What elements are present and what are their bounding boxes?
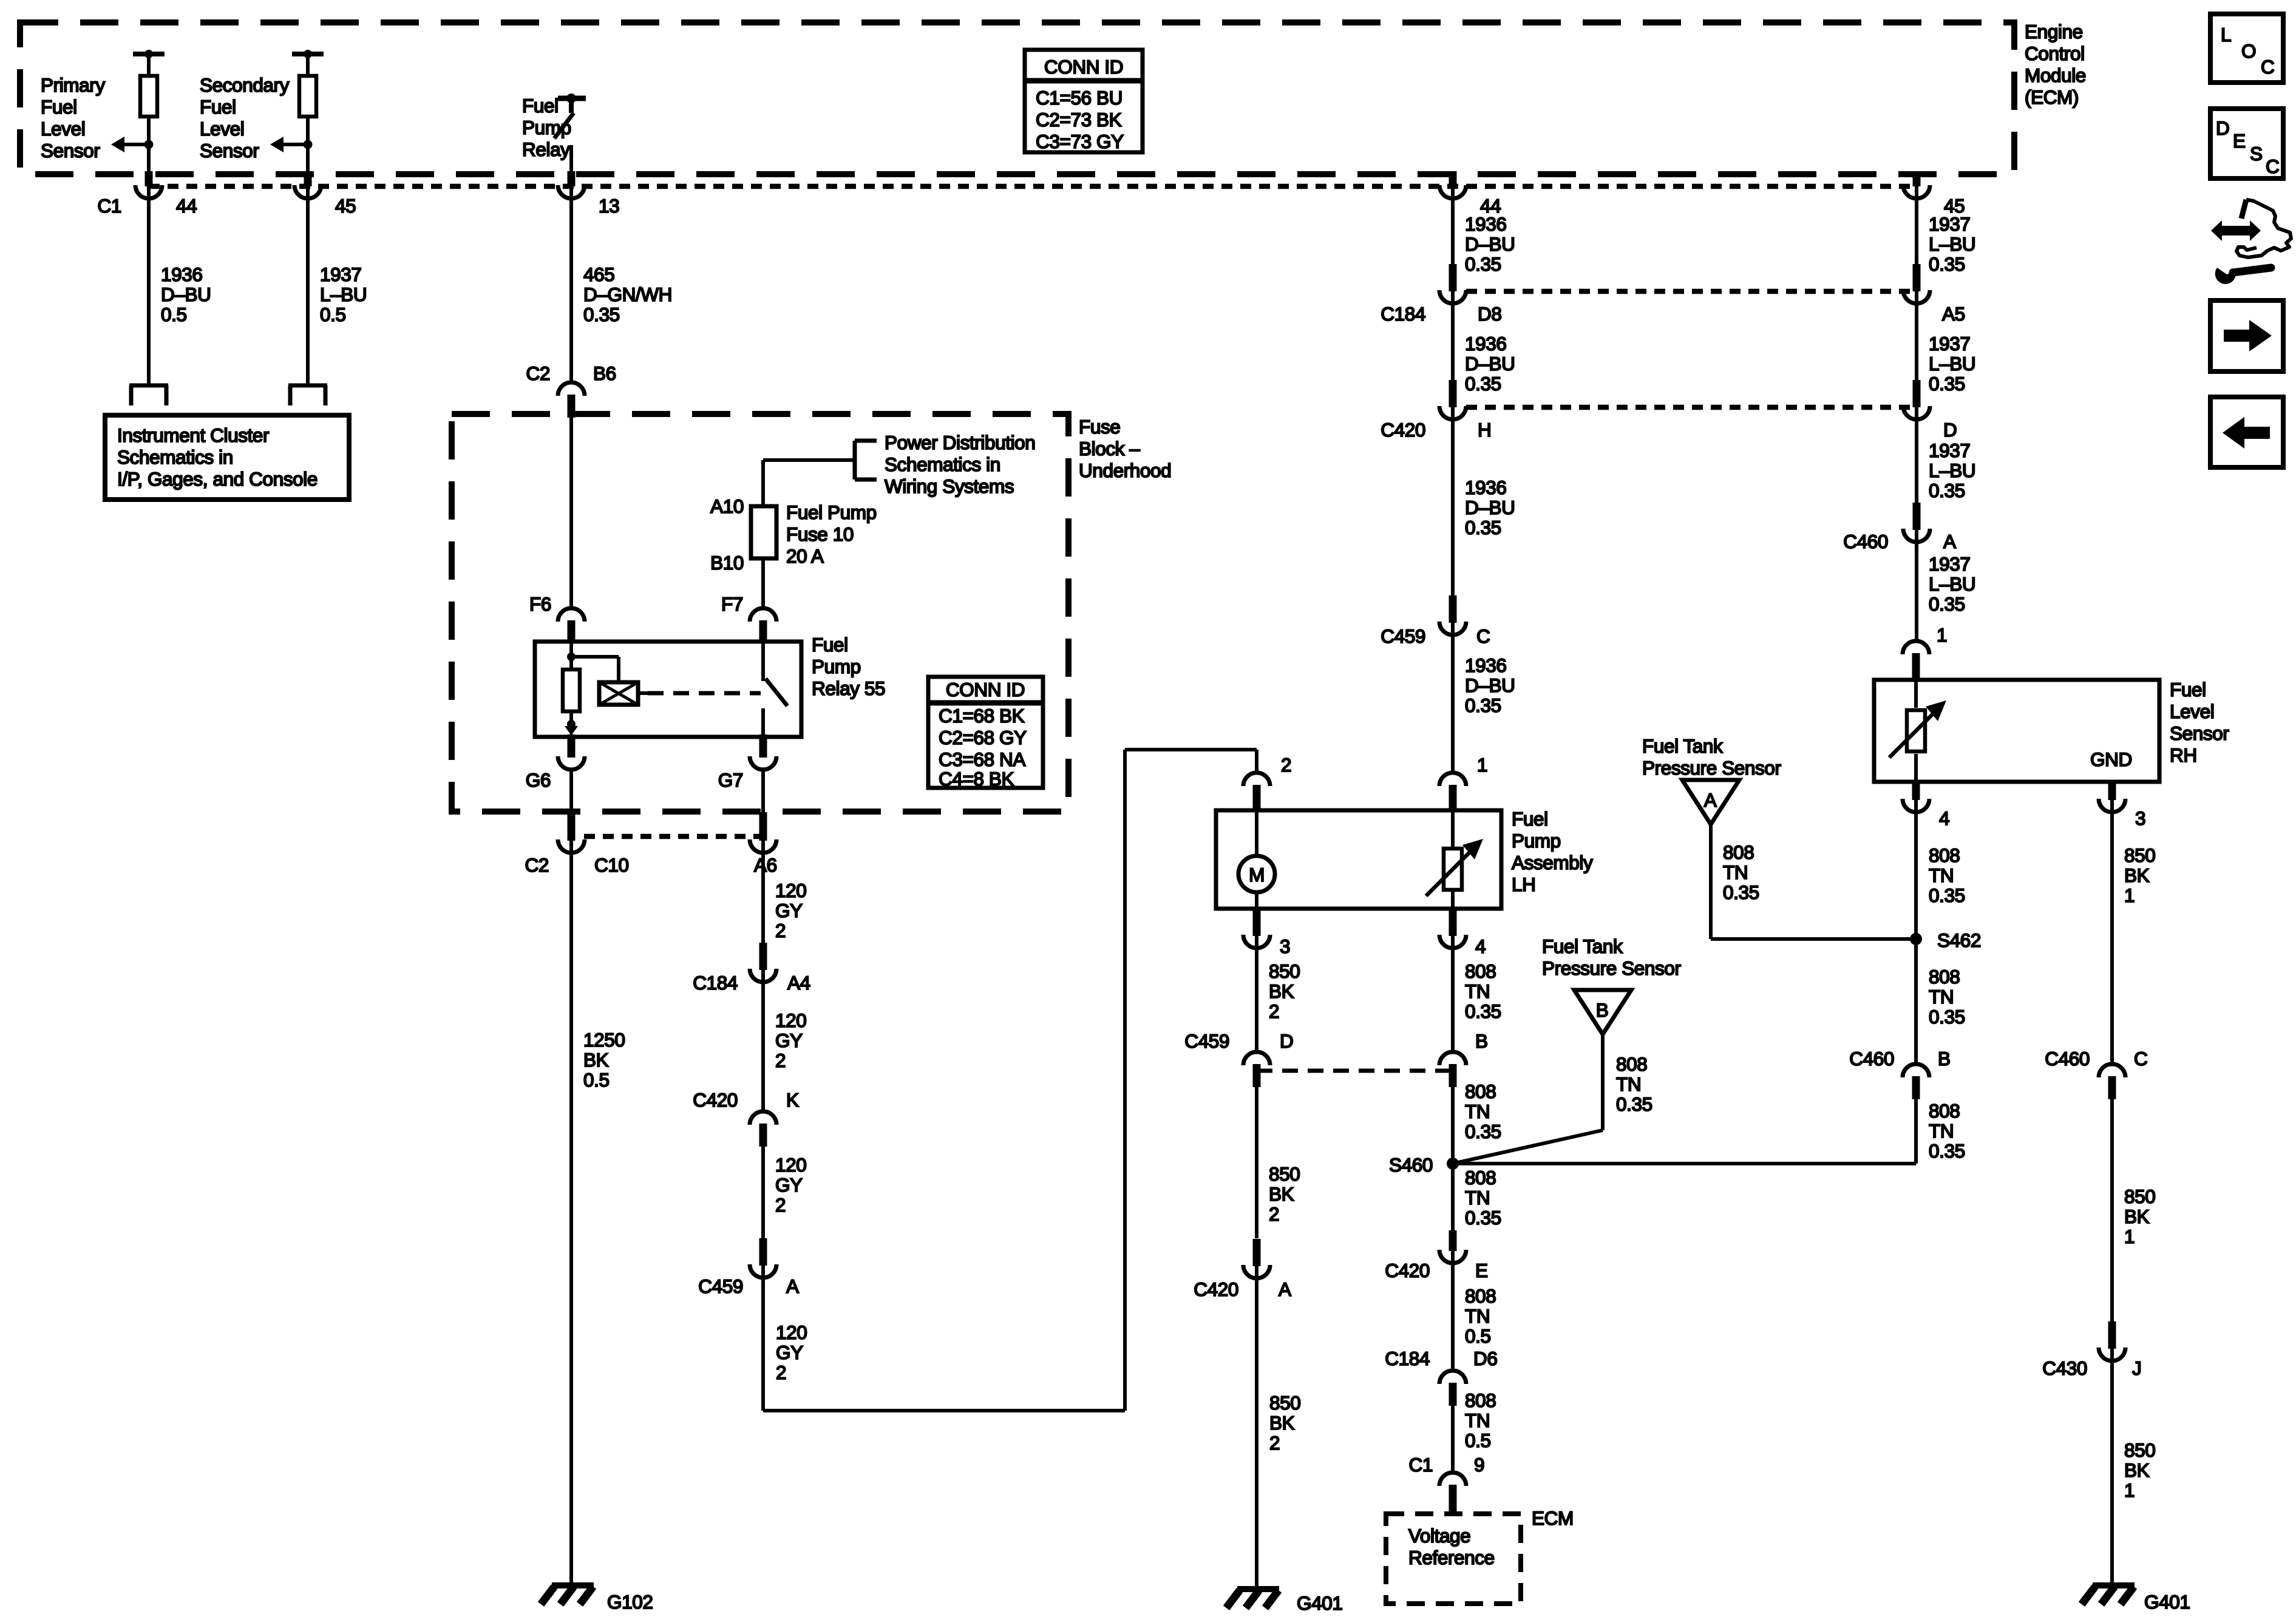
svg-text:Sensor: Sensor: [200, 140, 259, 161]
svg-text:0.35: 0.35: [1723, 881, 1759, 903]
svg-text:D–BU: D–BU: [161, 283, 211, 305]
svg-text:G6: G6: [526, 769, 551, 791]
svg-text:Sensor: Sensor: [2170, 722, 2229, 744]
svg-text:808: 808: [1929, 966, 1960, 988]
svg-text:A: A: [1943, 531, 1956, 552]
svg-text:0.35: 0.35: [1929, 593, 1965, 615]
svg-text:BK: BK: [1269, 1412, 1295, 1434]
svg-text:850: 850: [2124, 1439, 2155, 1461]
svg-text:808: 808: [1465, 1080, 1496, 1102]
svg-text:808: 808: [1465, 1167, 1496, 1188]
svg-text:Assembly: Assembly: [1512, 852, 1593, 873]
svg-text:A6: A6: [754, 854, 777, 876]
svg-text:E: E: [2233, 130, 2246, 152]
svg-text:Power Distribution: Power Distribution: [885, 432, 1035, 453]
svg-text:D–BU: D–BU: [1465, 497, 1515, 518]
svg-text:C10: C10: [594, 854, 629, 876]
svg-text:2: 2: [775, 1194, 786, 1216]
svg-text:1937: 1937: [1929, 439, 1970, 461]
svg-text:F6: F6: [529, 593, 551, 615]
svg-text:TN: TN: [1929, 1120, 1954, 1142]
svg-text:TN: TN: [1929, 986, 1954, 1008]
svg-text:0.35: 0.35: [1465, 517, 1501, 538]
svg-text:C184: C184: [1381, 303, 1425, 325]
svg-text:Level: Level: [2170, 700, 2214, 722]
svg-text:D6: D6: [1473, 1347, 1497, 1369]
svg-text:0.35: 0.35: [1929, 1006, 1965, 1028]
svg-text:Fuel Tank: Fuel Tank: [1642, 735, 1723, 757]
svg-text:G401: G401: [2144, 1591, 2190, 1613]
svg-text:BK: BK: [583, 1049, 609, 1071]
svg-text:Pump: Pump: [522, 117, 571, 138]
svg-text:G102: G102: [607, 1591, 653, 1613]
svg-text:2: 2: [1269, 1203, 1279, 1225]
svg-text:Voltage: Voltage: [1408, 1525, 1470, 1547]
svg-text:Schematics in: Schematics in: [117, 446, 233, 468]
svg-text:Pump: Pump: [1512, 830, 1561, 852]
svg-text:0.35: 0.35: [1465, 373, 1501, 395]
svg-text:J: J: [2132, 1357, 2141, 1379]
svg-text:RH: RH: [2170, 744, 2197, 766]
svg-text:0.35: 0.35: [1465, 1000, 1501, 1022]
svg-text:Fuel: Fuel: [2170, 679, 2206, 700]
svg-text:L–BU: L–BU: [1929, 233, 1975, 255]
svg-text:808: 808: [1465, 960, 1496, 982]
svg-text:Fuel: Fuel: [522, 95, 559, 117]
svg-text:3: 3: [2135, 807, 2145, 829]
svg-text:TN: TN: [1465, 1100, 1490, 1122]
svg-text:BK: BK: [2124, 1459, 2150, 1481]
svg-text:1937: 1937: [320, 263, 361, 285]
svg-text:C459: C459: [698, 1275, 743, 1297]
svg-text:Wiring Systems: Wiring Systems: [885, 475, 1014, 497]
svg-text:D8: D8: [1478, 303, 1501, 325]
svg-text:K: K: [786, 1089, 799, 1111]
svg-text:Relay 55: Relay 55: [812, 677, 885, 699]
svg-text:D: D: [2216, 117, 2229, 139]
svg-text:0.35: 0.35: [1465, 1207, 1501, 1229]
svg-text:BK: BK: [2124, 1205, 2150, 1227]
svg-text:2: 2: [775, 1049, 786, 1071]
svg-text:Engine: Engine: [2025, 21, 2083, 42]
svg-text:C: C: [2261, 56, 2274, 78]
svg-text:0.5: 0.5: [320, 303, 346, 325]
svg-text:1937: 1937: [1929, 553, 1970, 575]
svg-text:Primary: Primary: [41, 74, 105, 96]
svg-text:1: 1: [2124, 1479, 2135, 1501]
svg-text:20 A: 20 A: [786, 545, 824, 567]
svg-text:1: 1: [2124, 884, 2135, 906]
svg-text:808: 808: [1929, 844, 1960, 866]
svg-text:A10: A10: [710, 495, 744, 517]
svg-text:L–BU: L–BU: [1929, 353, 1975, 375]
svg-text:1: 1: [1477, 754, 1487, 776]
svg-text:3: 3: [1280, 935, 1290, 957]
svg-text:B: B: [1596, 999, 1609, 1021]
svg-text:C3=73 GY: C3=73 GY: [1036, 131, 1124, 152]
svg-text:C: C: [2266, 155, 2279, 177]
svg-text:C460: C460: [1843, 531, 1888, 552]
svg-text:4: 4: [1939, 807, 1949, 829]
svg-text:C1=56 BU: C1=56 BU: [1036, 87, 1123, 109]
svg-text:120: 120: [775, 1009, 806, 1031]
svg-text:C2: C2: [526, 362, 550, 384]
svg-text:Pressure Sensor: Pressure Sensor: [1642, 757, 1781, 779]
svg-text:L–BU: L–BU: [320, 283, 367, 305]
svg-text:TN: TN: [1723, 861, 1748, 883]
svg-text:2: 2: [1269, 1432, 1280, 1454]
svg-text:850: 850: [1269, 1163, 1300, 1185]
svg-text:F7: F7: [721, 593, 743, 615]
svg-text:Level: Level: [200, 118, 244, 140]
svg-text:C: C: [2134, 1048, 2147, 1070]
svg-text:1937: 1937: [1929, 213, 1970, 235]
svg-text:120: 120: [775, 1154, 806, 1176]
svg-text:0.5: 0.5: [161, 303, 187, 325]
svg-text:2: 2: [776, 1361, 786, 1383]
svg-text:Sensor: Sensor: [41, 140, 100, 161]
svg-text:120: 120: [776, 1321, 807, 1343]
svg-text:1936: 1936: [1465, 213, 1506, 235]
svg-text:0.35: 0.35: [1465, 253, 1501, 275]
svg-text:GY: GY: [776, 1341, 803, 1363]
svg-text:C430: C430: [2042, 1357, 2087, 1379]
svg-text:1250: 1250: [583, 1029, 625, 1051]
svg-text:C460: C460: [1849, 1048, 1894, 1070]
svg-text:13: 13: [599, 195, 619, 217]
svg-text:ECM: ECM: [1532, 1507, 1574, 1529]
svg-text:TN: TN: [1616, 1073, 1641, 1095]
svg-text:Relay: Relay: [522, 138, 570, 160]
svg-text:GY: GY: [775, 1029, 803, 1051]
svg-text:0.35: 0.35: [583, 303, 620, 325]
svg-text:CONN ID: CONN ID: [1044, 56, 1123, 78]
svg-text:Fuel: Fuel: [812, 634, 848, 656]
svg-text:LH: LH: [1512, 873, 1535, 895]
svg-text:B6: B6: [593, 362, 616, 384]
svg-text:C1=68 BK: C1=68 BK: [939, 705, 1025, 727]
svg-text:9: 9: [1474, 1454, 1484, 1476]
svg-text:0.5: 0.5: [1465, 1325, 1491, 1347]
svg-text:808: 808: [1723, 841, 1754, 863]
svg-text:850: 850: [2124, 844, 2155, 866]
svg-text:0.5: 0.5: [1465, 1429, 1491, 1451]
svg-text:I/P, Gages, and Console: I/P, Gages, and Console: [117, 468, 318, 490]
svg-text:Fuel Pump: Fuel Pump: [786, 501, 877, 523]
svg-text:Module: Module: [2025, 64, 2086, 86]
svg-text:4: 4: [1475, 935, 1486, 957]
svg-text:C184: C184: [1385, 1347, 1430, 1369]
svg-text:A4: A4: [787, 972, 810, 994]
svg-text:(ECM): (ECM): [2025, 86, 2079, 108]
svg-text:C184: C184: [693, 972, 738, 994]
svg-text:0.35: 0.35: [1465, 1120, 1501, 1142]
svg-text:BK: BK: [2124, 864, 2150, 886]
svg-text:Control: Control: [2025, 42, 2085, 64]
svg-text:0.5: 0.5: [583, 1069, 610, 1091]
svg-text:1936: 1936: [1465, 654, 1506, 676]
svg-text:1: 1: [1937, 624, 1947, 646]
svg-text:C420: C420: [1381, 419, 1425, 441]
svg-text:0.35: 0.35: [1929, 884, 1965, 906]
svg-text:TN: TN: [1465, 1409, 1490, 1431]
svg-text:Block –: Block –: [1079, 438, 1140, 459]
svg-text:B10: B10: [710, 552, 744, 574]
svg-text:808: 808: [1929, 1100, 1960, 1122]
svg-text:C459: C459: [1381, 625, 1425, 647]
svg-text:C: C: [1476, 625, 1490, 647]
svg-text:E: E: [1475, 1259, 1488, 1281]
svg-text:C4=8 BK: C4=8 BK: [939, 768, 1014, 790]
svg-text:0.35: 0.35: [1616, 1093, 1652, 1115]
svg-text:TN: TN: [1465, 1187, 1490, 1209]
svg-text:D: D: [1280, 1030, 1293, 1052]
svg-text:TN: TN: [1465, 1305, 1490, 1327]
svg-text:45: 45: [335, 195, 356, 217]
svg-text:S462: S462: [1937, 929, 1981, 951]
svg-text:Fuel Tank: Fuel Tank: [1542, 935, 1623, 957]
svg-text:0.35: 0.35: [1929, 373, 1965, 395]
svg-text:2: 2: [775, 920, 786, 941]
svg-text:C1: C1: [1409, 1454, 1433, 1476]
svg-text:808: 808: [1465, 1389, 1496, 1411]
svg-text:Instrument Cluster: Instrument Cluster: [117, 424, 269, 446]
svg-text:GY: GY: [775, 900, 803, 921]
svg-text:Fuel: Fuel: [1512, 808, 1548, 830]
svg-text:1936: 1936: [1465, 476, 1506, 498]
svg-text:Underhood: Underhood: [1079, 459, 1171, 481]
svg-text:Fuel: Fuel: [41, 96, 77, 118]
svg-text:L–BU: L–BU: [1929, 573, 1975, 595]
svg-text:BK: BK: [1269, 980, 1294, 1002]
svg-text:H: H: [1478, 419, 1491, 441]
svg-text:S460: S460: [1389, 1154, 1433, 1176]
svg-text:S: S: [2250, 143, 2263, 164]
svg-text:BK: BK: [1269, 1183, 1294, 1205]
svg-text:Fuse: Fuse: [1079, 416, 1120, 438]
svg-text:0.35: 0.35: [1465, 694, 1501, 716]
svg-text:Level: Level: [41, 118, 85, 140]
svg-text:C459: C459: [1184, 1030, 1229, 1052]
svg-text:850: 850: [2124, 1185, 2155, 1207]
svg-text:C420: C420: [693, 1089, 738, 1111]
svg-text:0.35: 0.35: [1929, 253, 1965, 275]
svg-text:B: B: [1475, 1030, 1488, 1052]
svg-text:0.35: 0.35: [1929, 1140, 1965, 1162]
svg-text:C420: C420: [1385, 1259, 1430, 1281]
svg-text:1936: 1936: [1465, 333, 1506, 354]
svg-text:850: 850: [1269, 1392, 1300, 1414]
svg-text:Pump: Pump: [812, 656, 861, 677]
svg-text:Schematics in: Schematics in: [885, 453, 1000, 475]
svg-text:O: O: [2241, 40, 2256, 62]
svg-text:850: 850: [1269, 960, 1300, 982]
svg-text:C2=73 BK: C2=73 BK: [1036, 109, 1122, 131]
svg-text:A5: A5: [1942, 303, 1965, 325]
svg-text:1: 1: [2124, 1225, 2135, 1247]
svg-text:808: 808: [1465, 1285, 1496, 1307]
svg-text:2: 2: [1281, 754, 1291, 776]
svg-text:Pressure Sensor: Pressure Sensor: [1542, 957, 1681, 979]
svg-text:L–BU: L–BU: [1929, 459, 1975, 481]
svg-text:D: D: [1943, 419, 1957, 441]
svg-text:CONN ID: CONN ID: [946, 679, 1025, 700]
svg-text:A: A: [786, 1275, 799, 1297]
svg-text:Fuel: Fuel: [200, 96, 236, 118]
svg-text:D–GN/WH: D–GN/WH: [583, 283, 672, 305]
svg-text:808: 808: [1616, 1053, 1647, 1075]
svg-text:A: A: [1704, 789, 1717, 811]
svg-text:Reference: Reference: [1408, 1547, 1495, 1568]
svg-text:2: 2: [1269, 1000, 1279, 1022]
svg-text:C460: C460: [2045, 1048, 2090, 1070]
svg-text:C420: C420: [1194, 1278, 1238, 1300]
svg-text:1936: 1936: [161, 263, 202, 285]
svg-text:44: 44: [176, 195, 197, 217]
svg-text:GND: GND: [2090, 748, 2132, 770]
svg-text:D–BU: D–BU: [1465, 353, 1515, 375]
svg-text:0.35: 0.35: [1929, 480, 1965, 501]
svg-text:C3=68 NA: C3=68 NA: [939, 748, 1025, 770]
svg-text:TN: TN: [1929, 864, 1954, 886]
svg-text:M: M: [1249, 864, 1265, 886]
svg-text:C2=68 GY: C2=68 GY: [939, 727, 1027, 748]
svg-text:G401: G401: [1297, 1592, 1342, 1614]
svg-text:G7: G7: [718, 769, 743, 791]
svg-text:GY: GY: [775, 1174, 803, 1196]
svg-text:465: 465: [583, 263, 614, 285]
svg-text:C1: C1: [98, 195, 121, 217]
svg-text:Fuse 10: Fuse 10: [786, 523, 854, 545]
svg-text:L: L: [2221, 24, 2231, 46]
svg-text:120: 120: [775, 880, 806, 901]
svg-text:D–BU: D–BU: [1465, 233, 1515, 255]
svg-text:C2: C2: [525, 854, 549, 876]
svg-text:B: B: [1938, 1048, 1951, 1070]
svg-text:TN: TN: [1465, 980, 1490, 1002]
svg-text:A: A: [1279, 1278, 1291, 1300]
svg-text:1937: 1937: [1929, 333, 1970, 354]
svg-text:D–BU: D–BU: [1465, 674, 1515, 696]
svg-text:Secondary: Secondary: [200, 74, 290, 96]
